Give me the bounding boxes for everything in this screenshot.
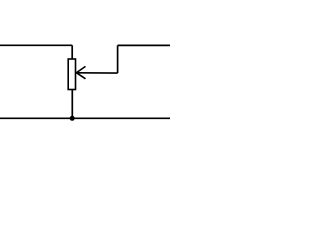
- wire: [71, 90, 73, 119]
- wire: [0, 44, 72, 46]
- wire: [118, 44, 170, 46]
- junction dot: [70, 116, 75, 121]
- wire: [117, 45, 119, 73]
- wire: [71, 45, 73, 59]
- potentiometer body: [68, 59, 75, 90]
- potentiometer wiper arrow: [76, 66, 117, 78]
- wire: [0, 117, 170, 119]
